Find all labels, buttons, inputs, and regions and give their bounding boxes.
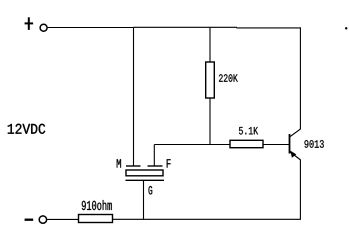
wire: node B down to resistor 220K top <box>209 28 211 63</box>
stray dot <box>345 27 347 29</box>
label 9013 <box>305 140 324 148</box>
label F <box>167 159 171 167</box>
wire: top rail node A to step <box>134 26 238 28</box>
label 5.1K <box>239 127 258 135</box>
wire: plus terminal to node A <box>48 27 134 29</box>
label G <box>149 186 153 195</box>
wire: bottom rail 910ohm to emitter corner <box>113 218 301 220</box>
wire: top rail step to right corner <box>237 27 301 29</box>
wire: right vertical rail to collector <box>299 27 301 129</box>
transistor Q1 9013 <box>290 129 301 160</box>
wire: F lead down from base net <box>153 145 155 167</box>
wire: node A down to sensor M lead <box>133 28 135 167</box>
terminal circle (-) <box>39 216 46 223</box>
resistor 220K <box>206 62 215 98</box>
wire: emitter down to bottom rail <box>299 160 301 219</box>
terminal circle (+) <box>40 24 47 31</box>
wire: sensor G lead down to bottom rail <box>143 180 145 219</box>
wire: resistor 220K bottom to base net <box>209 98 211 145</box>
battery minus symbol <box>25 219 34 221</box>
label 910ohm <box>82 200 112 210</box>
label 12VDC <box>8 124 45 134</box>
wire: 5.1K to transistor base <box>263 144 290 146</box>
label 220K <box>219 74 238 82</box>
wire: base net horizontal F node to 5.1K <box>154 144 230 146</box>
sensor F top bar <box>148 165 163 167</box>
label M <box>117 159 121 167</box>
battery plus symbol <box>25 17 33 30</box>
sensor M top bar <box>126 165 141 167</box>
resistor 910ohm <box>79 215 113 223</box>
sensor body box <box>126 170 163 176</box>
sensor bottom plate <box>126 179 165 181</box>
wire: minus terminal to resistor 910ohm <box>47 218 78 220</box>
resistor 5.1K <box>230 140 263 147</box>
